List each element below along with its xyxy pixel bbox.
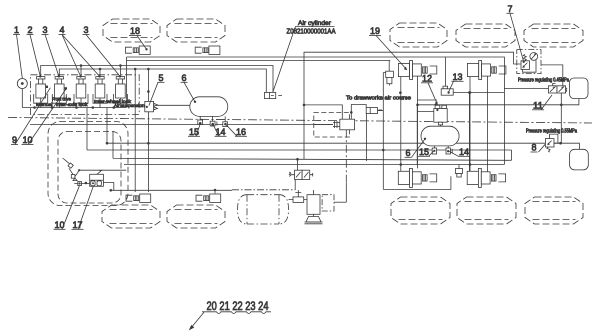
wheel bottom 2: [167, 205, 225, 228]
wheel bottom 3: [391, 197, 450, 224]
wire bus B34: [113, 131, 512, 160]
valve side mark a: [46, 86, 48, 88]
fitting near 17: [78, 181, 82, 185]
tank2 fitting 15: [433, 146, 435, 148]
cab outline outer: [48, 122, 128, 206]
actuator unit bottom-right: [196, 194, 221, 202]
brake chamber front-right: [468, 61, 506, 80]
wire x561 vertical: [560, 93, 562, 143]
wheel top 2: [167, 19, 225, 42]
wire fitting link: [379, 109, 383, 111]
wire bus B5: [124, 164, 504, 166]
reservoir 2: [570, 149, 589, 170]
wire bottom run y190: [111, 189, 232, 191]
pressure gauge 1: [17, 79, 27, 89]
svg-text:14: 14: [459, 146, 469, 157]
compressor: [307, 195, 320, 215]
brake chamber rear-left: [398, 168, 436, 187]
wire y190 dashdot: [232, 189, 295, 191]
wire x366 vert: [366, 114, 368, 161]
wire long line y124: [30, 123, 333, 125]
svg-text:6: 6: [182, 72, 187, 83]
valve bank enclosure: [31, 75, 140, 115]
wire fitting right link: [378, 110, 384, 112]
actuator unit bottom-left: [126, 194, 151, 202]
wire y105 line: [418, 104, 562, 106]
wire vert x148 upper: [147, 69, 149, 101]
cab outline inner: [58, 132, 121, 204]
svg-text:6: 6: [406, 147, 411, 158]
air dryer tank: [238, 195, 289, 224]
wire valve11 feed: [504, 88, 548, 90]
regulator 8: [545, 139, 554, 147]
air tank 6 rear: [421, 126, 459, 146]
wire bus B2: [87, 149, 512, 151]
control valve 3: [74, 77, 88, 108]
dryer valve: [295, 190, 301, 197]
wire valve12 stub1: [418, 99, 438, 101]
wheel top 4: [456, 24, 515, 47]
wheel top 1: [103, 19, 160, 42]
wire valve13 top: [445, 57, 447, 86]
valve 5: [145, 101, 158, 111]
svg-text:8: 8: [532, 142, 537, 153]
svg-text:3: 3: [43, 24, 48, 35]
wire compressor out: [334, 201, 346, 203]
wire regulator feed G0: [304, 52, 521, 159]
svg-text:To drawworks air course: To drawworks air course: [346, 96, 411, 102]
wire frame line F1: [127, 57, 505, 165]
svg-text:Front drive: Front drive: [52, 97, 71, 103]
wire tank1 to valve5: [155, 104, 190, 106]
wire reg7 to valve11: [541, 65, 563, 86]
release valve bottom: [458, 165, 460, 169]
svg-text:5: 5: [159, 72, 164, 83]
wire frame left vertical: [126, 57, 128, 104]
brake chamber 19: [398, 61, 436, 80]
wire u4 stub: [214, 190, 216, 194]
svg-text:18: 18: [130, 25, 140, 36]
wire 17 connections: [74, 183, 114, 191]
wire circle to bus: [21, 89, 23, 108]
wire vert x470: [469, 77, 471, 172]
svg-text:10: 10: [55, 219, 65, 230]
svg-text:1: 1: [14, 24, 19, 35]
reservoir 1: [570, 78, 589, 99]
svg-text:12: 12: [422, 73, 432, 84]
plug component: [333, 119, 355, 130]
solenoid valve: [295, 170, 310, 179]
tank1 fitting 16: [224, 116, 226, 121]
control valve 1: [34, 77, 48, 108]
air tank 6 front: [190, 97, 228, 117]
wire vert x400: [400, 77, 402, 172]
wire valve3 up: [80, 66, 82, 77]
vehicle centerline: [8, 118, 592, 124]
wheel bottom 1: [102, 205, 160, 228]
wire bus B1: [107, 142, 561, 144]
wire valve19b top: [388, 61, 390, 72]
valve 12: [434, 105, 447, 125]
tank2 fitting 14: [447, 146, 449, 148]
wheel bottom 4: [457, 197, 516, 224]
wire vert x148 lower: [147, 112, 149, 192]
wire valve5 up: [119, 66, 121, 77]
wire mid L: [351, 105, 366, 119]
svg-text:Pressure regulating 0.55MPa: Pressure regulating 0.55MPa: [526, 129, 577, 135]
brake chamber rear-right: [467, 168, 505, 187]
svg-text:2: 2: [28, 24, 33, 35]
actuator unit 18a: [126, 46, 151, 54]
svg-text:20 21 22 23 24: 20 21 22 23 24: [207, 299, 269, 313]
wheel top 3: [390, 23, 447, 47]
valve side mark b: [65, 87, 67, 89]
tank1 fitting 14: [212, 116, 214, 121]
regulator 7 enclosure: [517, 50, 541, 74]
svg-text:9: 9: [12, 134, 17, 145]
wire plug left: [314, 124, 333, 126]
svg-text:13: 13: [453, 71, 463, 82]
actuator unit 18b: [195, 46, 220, 54]
wire valve4 up: [99, 69, 101, 77]
valve 13: [441, 86, 453, 95]
svg-text:Inter-axle lock: Inter-axle lock: [56, 102, 88, 108]
wire reservoir1 drop: [561, 99, 579, 105]
valve 17: [90, 174, 104, 186]
wheel top 5: [524, 24, 583, 47]
air cylinder fitting: [265, 92, 282, 98]
wire valve12 stub2: [418, 111, 434, 113]
regulator 7 valve: [521, 61, 530, 70]
pipe fitting mid: [366, 108, 377, 114]
mid enclosure dashed: [314, 113, 350, 137]
compressor box dashed: [322, 195, 334, 211]
tank1 fitting 15: [199, 116, 201, 120]
wire drawworks branch: [304, 105, 342, 119]
svg-text:16: 16: [236, 126, 246, 137]
wire solenoid up: [297, 159, 299, 170]
wire compressor top stub: [313, 190, 315, 195]
valve 11: [548, 86, 565, 93]
svg-text:7: 7: [508, 3, 513, 14]
wire solenoid down: [294, 180, 296, 191]
regulator 7 gauge: [530, 53, 538, 61]
svg-text:Pressure regulating 0.45MPa: Pressure regulating 0.45MPa: [518, 78, 569, 84]
control valve 2: [52, 77, 66, 108]
wire bus under valves: [22, 107, 126, 109]
wire valve19b bottom: [383, 73, 385, 151]
valve near 19: [386, 71, 394, 84]
wire vert x487: [487, 77, 489, 172]
svg-text:15: 15: [419, 146, 429, 157]
control valve 4: [93, 77, 107, 108]
hand lever valve: [63, 158, 70, 164]
svg-text:19: 19: [370, 25, 380, 36]
tank2 side verticals: [417, 93, 469, 172]
wheel bottom 5: [525, 197, 583, 224]
svg-text:4: 4: [60, 24, 65, 35]
wire vert x87: [86, 108, 88, 151]
svg-text:3: 3: [84, 24, 89, 35]
wire reg8 loop: [550, 134, 580, 149]
control valve 5: [113, 77, 127, 108]
wire air line A2: [59, 69, 266, 92]
wire vert x135: [134, 69, 136, 192]
wire valve13 line: [453, 92, 504, 94]
wire frame line F2: [127, 60, 391, 62]
svg-text:Air suspension: Air suspension: [114, 103, 145, 109]
wire vert x107: [106, 108, 108, 144]
wire vert x417: [417, 77, 419, 169]
wire air line A1: [41, 66, 273, 93]
wire chamber under-frame: [383, 150, 451, 189]
wire component down: [345, 130, 347, 183]
